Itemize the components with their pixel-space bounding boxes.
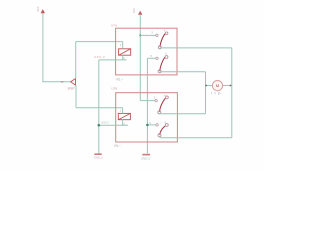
svg-text:3: 3 <box>154 95 156 99</box>
wire K1 contact2 left <box>147 57 155 59</box>
node junction coil K2 / ground line <box>98 124 101 127</box>
contact K2-a flipper <box>158 94 169 114</box>
wire coil K2 top pin <box>122 108 124 114</box>
svg-text:M: M <box>216 84 219 88</box>
node junction motor left <box>205 85 207 87</box>
svg-text:G5V-2: G5V-2 <box>101 121 109 125</box>
svg-text:1: 1 <box>120 109 122 113</box>
ground 0 (right) <box>141 155 150 161</box>
contact K1-b flipper <box>158 51 168 72</box>
wire coil K2 bottom pin <box>122 120 124 126</box>
node junction common net bottom <box>146 124 149 127</box>
svg-text:G5V-2: G5V-2 <box>94 55 105 59</box>
svg-text:U?B: U?B <box>111 86 117 90</box>
wire to port (horizontal) <box>42 81 70 83</box>
coil K2 <box>118 113 130 119</box>
wire coil K1 bottom pin <box>122 55 124 60</box>
svg-text:VCC: VCC <box>133 8 136 13</box>
wire port bottom stem <box>75 85 77 108</box>
svg-text:3PDT: 3PDT <box>67 86 75 90</box>
svg-text:1: 1 <box>120 43 122 47</box>
wire K1 contact1 left <box>140 34 155 36</box>
wire K1 contact2 right <box>160 71 206 73</box>
wire motor right pin <box>223 85 232 87</box>
wire ground-left vertical <box>98 60 100 153</box>
terminal circle contact2 left <box>156 57 158 59</box>
svg-text:VCC: VCC <box>37 6 40 11</box>
wire to upper coil (horizontal) <box>76 41 123 43</box>
svg-text:3P: 3P <box>61 80 64 84</box>
terminal circle contact2 left <box>156 124 158 126</box>
wire far right vertical <box>231 48 233 138</box>
svg-text:6: 6 <box>165 51 167 55</box>
ground 0 (left) <box>94 154 103 159</box>
wire right vertical to motor left <box>205 72 207 114</box>
wire coil K1 bottom to ground line <box>99 59 127 61</box>
wire coil K1 top pin <box>122 42 124 49</box>
wire common net vertical <box>146 58 148 153</box>
wire VCC middle stem <box>139 15 141 101</box>
svg-text:I = 3-: I = 3- <box>211 92 221 96</box>
terminal circle contact1 left <box>156 34 158 36</box>
svg-text:5: 5 <box>150 54 152 58</box>
wire K2 contact2 right <box>160 137 232 139</box>
power symbol VCC (left) <box>37 6 45 13</box>
wire K2 contact1 left <box>140 100 155 102</box>
svg-text:U?A: U?A <box>111 23 117 27</box>
relay K1 body <box>116 28 177 75</box>
wire K1 contact1 right <box>160 47 232 49</box>
wire coil K2 bottom to ground line <box>99 124 128 126</box>
wire K2 contact1 right <box>159 113 205 115</box>
motor M1 <box>211 81 222 96</box>
power symbol VCC (middle) <box>133 8 142 15</box>
relay K2 body <box>116 93 178 142</box>
wire port top stem <box>75 42 77 79</box>
svg-text:RL~: RL~ <box>114 144 120 148</box>
svg-text:GND_0: GND_0 <box>141 157 150 161</box>
wire VCC left stem <box>42 13 44 81</box>
contact K1-a flipper <box>158 29 168 49</box>
svg-text:3: 3 <box>151 30 153 34</box>
port 3PDT (off-page connector) <box>67 79 75 91</box>
node junction upper contact feed <box>139 34 141 36</box>
svg-text:RL~: RL~ <box>116 77 122 81</box>
coil K1 <box>119 49 131 55</box>
svg-text:GND_0: GND_0 <box>94 155 103 159</box>
terminal circle contact1 left <box>155 99 157 101</box>
contact K2-b flipper <box>158 120 168 136</box>
wire motor left pin <box>206 85 213 87</box>
wire to lower coil (horizontal) <box>76 107 123 109</box>
node junction motor right <box>230 85 232 87</box>
wire K2 contact2 left <box>147 124 155 126</box>
